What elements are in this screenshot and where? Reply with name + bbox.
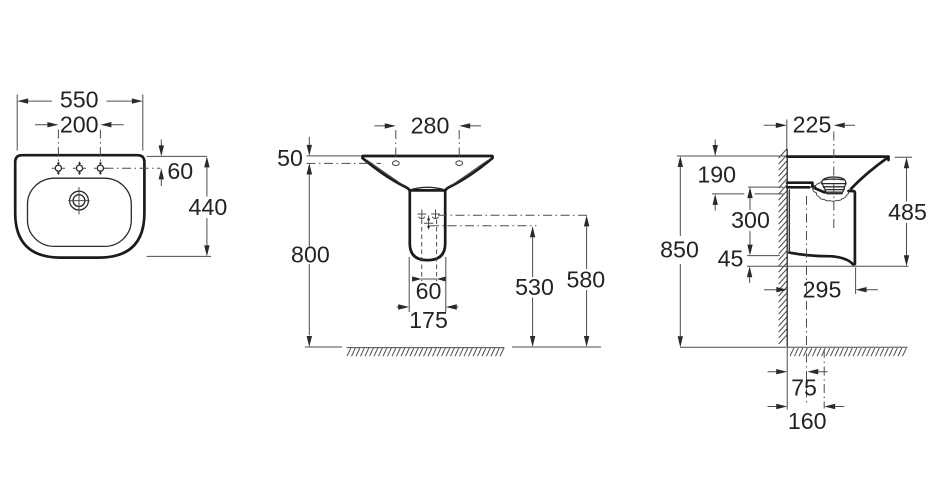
svg-text:440: 440 (189, 194, 228, 220)
bolt hidden line right (436, 220, 438, 282)
wall hatching (779, 149, 788, 345)
drain with crosshair (68, 187, 89, 215)
floor hatching (middle view) (347, 348, 505, 357)
dimension 295 (764, 277, 878, 303)
dimension 485 (888, 157, 927, 266)
dimension 440 (147, 156, 228, 256)
svg-text:175: 175 (409, 307, 448, 333)
dimension 200 (35, 112, 124, 165)
svg-text:45: 45 (718, 246, 744, 272)
trap centreline vertical (833, 132, 835, 229)
svg-text:580: 580 (566, 267, 605, 293)
svg-text:50: 50 (277, 145, 303, 171)
485 top extension line (895, 156, 912, 158)
floor hatching (side view) (790, 348, 906, 356)
floor line left segment (side view) (680, 346, 786, 348)
dimension 45 (718, 246, 753, 284)
dimension 175 (397, 257, 459, 333)
svg-text:550: 550 (60, 87, 99, 113)
dimension 60 (pedestal bolts) (412, 276, 446, 304)
svg-text:530: 530 (515, 274, 554, 300)
pedestal fixing hole right cross (431, 210, 440, 219)
outlet centreline (160) (823, 349, 825, 409)
dimension 300 (731, 187, 770, 256)
basin side: mounting slot upper line (787, 183, 815, 187)
dimension 580 (566, 215, 605, 347)
dimension 60 (left view) (105, 140, 207, 187)
190 lower extension line (712, 193, 783, 195)
svg-text:280: 280 (411, 113, 450, 139)
pedestal bottom level line (45/485) (747, 265, 909, 267)
floor line left segment (305, 346, 342, 348)
pedestal side: right edge and top (849, 191, 855, 264)
dimension 225 (764, 112, 855, 152)
pedestal side: bottom curve (789, 253, 855, 265)
basin top level line (850/190) (677, 155, 787, 157)
tap hole left (52, 162, 65, 175)
pedestal front outline (410, 190, 445, 260)
svg-text:485: 485 (888, 199, 927, 225)
pedestal side: left edge (788, 190, 790, 253)
pedestal fixing hole left cross (417, 210, 426, 219)
waste pipe centreline (75) (806, 196, 808, 404)
svg-text:190: 190 (697, 162, 736, 188)
floor line right segment (side view) (787, 346, 907, 348)
siphon bottle (821, 177, 846, 194)
dimension 850 (660, 156, 699, 347)
45 upper extension line (747, 255, 780, 257)
floor line right segment (512, 346, 601, 348)
svg-text:800: 800 (291, 242, 330, 268)
basin front outline (362, 156, 492, 190)
svg-text:225: 225 (793, 112, 832, 138)
wall face extension below floor (786, 347, 788, 409)
dimension 75 (768, 369, 828, 401)
basin inner bowl outline (28, 178, 132, 246)
basin side: mounting slot lower line (787, 186, 809, 189)
dimension 280 (374, 113, 481, 161)
dimension 160 (768, 404, 845, 434)
basin side: top edge (787, 157, 888, 160)
svg-text:75: 75 (791, 375, 817, 401)
basin underside glaze line left (367, 160, 406, 188)
dimension 50 (277, 137, 381, 175)
svg-text:160: 160 (788, 408, 827, 434)
dimension 800 (291, 164, 330, 348)
295 extension line (855, 268, 857, 295)
siphon wedge (left) (814, 188, 825, 193)
drain centre mark (front) (424, 216, 433, 230)
dimension 530 (515, 226, 554, 347)
basin fixing hole right (front) (456, 161, 463, 166)
svg-text:60: 60 (416, 278, 442, 304)
basin side: right profile curve (851, 157, 889, 189)
svg-text:200: 200 (60, 112, 99, 138)
dimension 190 (697, 140, 736, 211)
basin bottom back edge arc (410, 187, 444, 190)
drain height centreline 530 level (430, 225, 537, 227)
basin underside glaze line right (449, 160, 488, 188)
drain height centreline 580 level (438, 214, 588, 216)
basin outer outline (top view) (15, 155, 144, 257)
tap hole centre (73, 162, 86, 175)
wall face line (786, 149, 788, 347)
tap hole right (94, 162, 107, 175)
svg-text:295: 295 (803, 277, 842, 303)
svg-text:850: 850 (660, 237, 699, 263)
svg-text:300: 300 (731, 207, 770, 233)
basin fixing hole left (front) (392, 161, 399, 166)
svg-text:60: 60 (167, 158, 193, 184)
300 upper extension line (748, 186, 784, 188)
dimension 550 (17, 87, 143, 151)
bolt hidden line left (421, 220, 423, 282)
trap shroud wavy outline (813, 182, 851, 202)
